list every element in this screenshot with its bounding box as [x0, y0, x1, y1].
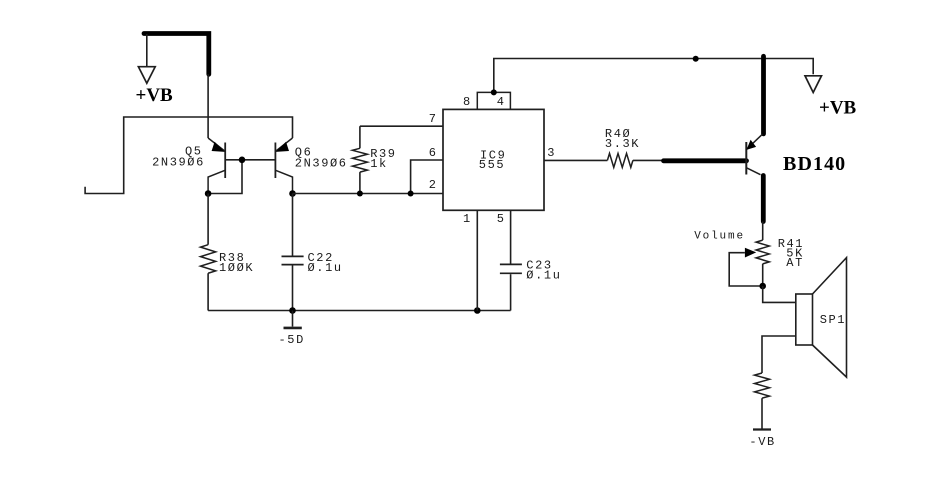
wire base-collector tie — [208, 160, 242, 194]
wire thick BD140 collector — [761, 176, 766, 222]
wire pin3 to R40 — [544, 159, 607, 161]
svg-text:2N39Ø6: 2N39Ø6 — [152, 156, 205, 170]
svg-text:3.3K: 3.3K — [605, 137, 640, 151]
wire thick BD140 emitter — [761, 56, 766, 134]
svg-text:BD140: BD140 — [783, 153, 846, 175]
wire Q5 emitter vertical — [207, 74, 209, 138]
svg-text:2N39Ø6: 2N39Ø6 — [295, 156, 348, 170]
ic IC9 — [443, 92, 544, 210]
resistor speaker return — [755, 373, 770, 398]
svg-text:4: 4 — [497, 95, 506, 109]
speaker SP1 — [796, 258, 847, 378]
wire collector rail to IC pin2 — [293, 193, 444, 195]
svg-text:5: 5 — [497, 212, 506, 226]
resistor R39 — [352, 126, 367, 193]
wire resistor to ground — [761, 398, 763, 428]
wire pin5 to C23 — [510, 210, 512, 263]
resistor R38 — [201, 194, 216, 311]
wire speaker return — [762, 336, 796, 373]
svg-text:SP1: SP1 — [820, 313, 846, 327]
svg-text:-5D: -5D — [279, 333, 305, 347]
svg-text:1k: 1k — [370, 157, 388, 171]
transistor Q5 — [208, 138, 225, 194]
potentiometer R41 — [729, 240, 769, 286]
wire base line Q5-Q6 — [225, 159, 275, 161]
wire thick BD140 base — [664, 158, 747, 163]
wire pin1 to ground rail — [476, 210, 478, 310]
transistor Q6 — [275, 138, 292, 194]
wire pin7 to R39 — [360, 125, 443, 127]
svg-text:+VB: +VB — [819, 98, 857, 119]
node pin6 junction — [408, 191, 414, 197]
node top rail — [693, 56, 699, 62]
wire R41 to speaker — [763, 286, 796, 302]
svg-text:7: 7 — [429, 112, 438, 126]
svg-text:3: 3 — [547, 146, 556, 160]
node R41 wiper junction — [759, 283, 766, 290]
node pin1 ground — [474, 307, 481, 314]
svg-text:2: 2 — [429, 178, 438, 192]
wire +VB left lead — [146, 34, 148, 67]
wire input net — [85, 117, 292, 194]
wire ground rail bottom — [208, 310, 511, 312]
svg-text:1ØØK: 1ØØK — [219, 261, 254, 275]
node IC pin4 bridge — [491, 89, 497, 95]
ground -VB — [753, 428, 771, 430]
wire pin6 — [411, 160, 443, 194]
svg-text:Ø.1u: Ø.1u — [526, 268, 561, 282]
capacitor C23 — [500, 264, 522, 310]
power +VB (right) — [805, 76, 822, 93]
svg-text:AT: AT — [786, 256, 804, 270]
wire R40 to base — [633, 159, 664, 161]
node Q6 collector — [289, 190, 296, 197]
wire collector to R41 — [762, 222, 764, 241]
node Q5 base junction — [239, 157, 246, 164]
node C22 ground — [289, 307, 296, 314]
capacitor C22 — [282, 194, 304, 311]
power +VB (left) — [138, 67, 155, 84]
svg-text:Volume: Volume — [694, 230, 745, 242]
ground -5D — [292, 311, 294, 327]
svg-text:-VB: -VB — [749, 435, 775, 449]
wire thick +VB feed top-left — [144, 34, 209, 75]
svg-text:Ø.1u: Ø.1u — [308, 261, 343, 275]
resistor R40 — [607, 153, 633, 167]
transistor BD140 — [746, 134, 762, 174]
svg-text:8: 8 — [463, 95, 472, 109]
svg-text:+VB: +VB — [136, 85, 174, 106]
svg-text:6: 6 — [429, 146, 438, 160]
node R39 bottom — [357, 191, 363, 197]
svg-text:1: 1 — [463, 212, 472, 226]
wire top rail +VB — [494, 59, 813, 93]
svg-text:555: 555 — [479, 158, 505, 172]
node Q5 collector — [205, 190, 212, 197]
